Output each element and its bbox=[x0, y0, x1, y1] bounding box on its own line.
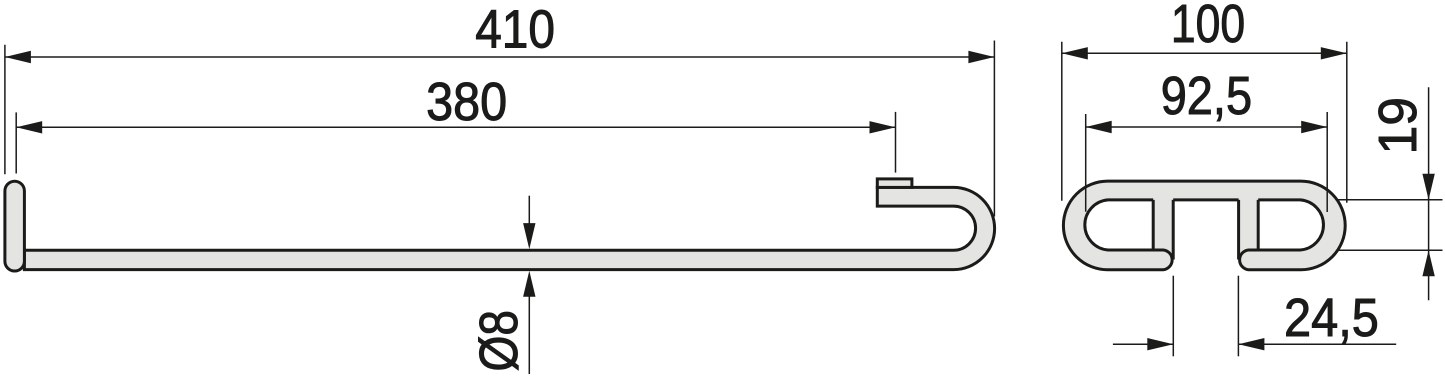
left end post (stadium) bbox=[5, 181, 25, 271]
arrow diameter lower (points up to rod bottom) bbox=[523, 271, 535, 297]
dimension line 92,5 bbox=[1086, 126, 1328, 128]
dimension line 380 bbox=[16, 126, 895, 128]
svg-text:Ø8: Ø8 bbox=[469, 310, 529, 372]
extension line 92,5 left bbox=[1085, 114, 1087, 212]
dimension line 24,5 left segment bbox=[1113, 343, 1173, 345]
arrow 410 right bbox=[968, 51, 994, 63]
extension line 19 upper bbox=[1338, 199, 1443, 201]
arrow 19 lower (points up) bbox=[1422, 250, 1434, 276]
arrow 92,5 right bbox=[1301, 121, 1327, 133]
arrow 380 left bbox=[16, 121, 42, 133]
right leg fill bbox=[1239, 195, 1259, 260]
arrow 100 right bbox=[1321, 47, 1347, 59]
rod side-view outline with U-bend bbox=[24, 187, 994, 269]
extension line 19 lower bbox=[1337, 249, 1443, 251]
extension line 100 left bbox=[1061, 42, 1063, 201]
extension line 380 right bbox=[895, 112, 897, 173]
arrow 24,5 left (points right) bbox=[1147, 338, 1173, 350]
extension line 24,5 right bbox=[1237, 276, 1239, 357]
svg-text:410: 410 bbox=[475, 0, 555, 59]
right leg edges bbox=[1239, 200, 1259, 260]
arrow 100 left bbox=[1062, 47, 1088, 59]
arrow 380 right bbox=[870, 121, 896, 133]
rod front-view fill bbox=[1063, 181, 1345, 270]
arrow 19 upper (points down) bbox=[1422, 174, 1434, 200]
dimension line 24,5 right segment bbox=[1238, 343, 1396, 345]
extension line 100 right bbox=[1346, 42, 1348, 203]
arrow 410 left bbox=[5, 51, 31, 63]
svg-text:24,5: 24,5 bbox=[1284, 288, 1379, 348]
rod front-view outline strokes bbox=[1063, 181, 1345, 270]
svg-text:380: 380 bbox=[426, 72, 507, 132]
diameter leader upper line bbox=[528, 196, 530, 236]
hook tab (bracket plate) bbox=[877, 179, 912, 188]
dimension line 410 bbox=[5, 56, 995, 58]
svg-text:19: 19 bbox=[1368, 97, 1428, 155]
svg-text:92,5: 92,5 bbox=[1161, 66, 1252, 126]
extension line 410 right bbox=[993, 41, 995, 217]
diameter leader lower line bbox=[528, 284, 530, 374]
arrow 92,5 left bbox=[1086, 121, 1112, 133]
extension line 92,5 right bbox=[1326, 112, 1328, 212]
extension line 410 left bbox=[4, 45, 6, 175]
extension line 24,5 left bbox=[1172, 276, 1174, 357]
svg-text:100: 100 bbox=[1171, 0, 1245, 54]
dimension line 19 bbox=[1428, 87, 1430, 300]
arrow diameter upper (points down to rod top) bbox=[523, 223, 535, 249]
extension line 380 left bbox=[15, 112, 17, 173]
left leg fill bbox=[1153, 195, 1173, 260]
dimension line 100 bbox=[1062, 52, 1347, 54]
left leg edges bbox=[1153, 200, 1173, 260]
arrow 24,5 right (points left) bbox=[1238, 338, 1264, 350]
